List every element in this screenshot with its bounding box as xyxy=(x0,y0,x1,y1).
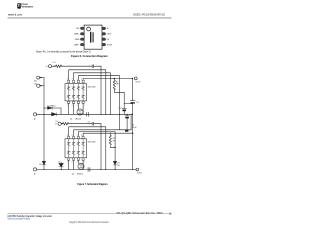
left pin labels xyxy=(74,28,80,46)
pin 1 indicator circle xyxy=(87,27,91,31)
capacitor plates in upper bus xyxy=(87,112,89,116)
diode D5 stub xyxy=(114,147,116,169)
svg-text:D2 1N914: D2 1N914 xyxy=(47,105,55,107)
svg-text:CAP−: CAP− xyxy=(74,43,80,46)
IC U2 top pin pads xyxy=(68,80,70,82)
svg-text:D3: D3 xyxy=(58,161,60,163)
svg-text:5: 5 xyxy=(169,212,171,216)
svg-text:2: 2 xyxy=(72,135,73,137)
wire: output line to VOUT xyxy=(83,79,132,81)
wire: lower nested bus 3 to resistor xyxy=(78,132,115,148)
svg-text:5: 5 xyxy=(77,79,78,81)
IC U3 body xyxy=(65,139,87,158)
svg-text:V+: V+ xyxy=(55,124,57,126)
diode D3 symbol xyxy=(59,163,64,166)
capacitor C2 stub xyxy=(123,104,125,115)
IC U2 body xyxy=(65,84,87,101)
svg-text:(6): (6) xyxy=(34,80,37,82)
wire: pin to transistor Q2 xyxy=(77,160,79,163)
svg-text:INSTRUMENTS: INSTRUMENTS xyxy=(22,6,33,8)
svg-text:4: 4 xyxy=(81,135,82,137)
capacitor C4 plates xyxy=(125,115,129,117)
wire: U3 pin bottoms to bus xyxy=(69,160,83,170)
pin numbers U2 bottom xyxy=(67,105,86,107)
terminal pair upper-left A xyxy=(37,76,40,79)
wire: terminal B to rail xyxy=(40,85,44,87)
pin 1 lead xyxy=(80,27,84,29)
transistor Q1 xyxy=(77,109,83,115)
terminal upper bus left xyxy=(33,113,36,116)
capacitor C4b dark plate at loop bottom xyxy=(125,130,128,132)
U2 internal column 3 xyxy=(77,84,80,101)
svg-text:+C2: +C2 xyxy=(118,108,121,110)
pin 6 lead xyxy=(102,38,106,41)
pin 5 lead xyxy=(102,43,106,46)
upper ground bus wire xyxy=(37,113,133,115)
wire: right drop to bus xyxy=(100,66,102,114)
fuse F2 xyxy=(61,123,68,125)
wire: terminal to fuse xyxy=(52,65,56,67)
U1 rotated part-number text xyxy=(90,32,91,43)
wire: left vertical rail xyxy=(43,78,45,170)
resistor R2 xyxy=(109,133,111,145)
terminal pair upper-left B xyxy=(37,84,40,87)
svg-text:5: 5 xyxy=(77,135,78,137)
terminal V+ (lower input) xyxy=(58,122,61,125)
terminal VOUT (upper right) xyxy=(134,77,137,80)
resistor R1 xyxy=(113,79,115,90)
wire: lower output line xyxy=(83,133,133,136)
terminal VOUT (lower right, on bus) xyxy=(136,168,139,171)
svg-text:SN-QS QML Schematic Rev No. 76: SN-QS QML Schematic Rev No. 7660 xyxy=(116,211,162,215)
svg-text:OSC: OSC xyxy=(107,34,112,36)
svg-text:4: 4 xyxy=(81,79,82,81)
TI logo wordmark: TEXAS / INSTRUMENTS xyxy=(22,3,33,8)
svg-text:2W: 2W xyxy=(116,84,119,86)
pin 2 lead xyxy=(80,33,84,35)
svg-text:2: 2 xyxy=(72,79,73,81)
svg-text:6: 6 xyxy=(72,162,73,164)
capacitor C3 plates in VOUT rail xyxy=(130,100,135,102)
wire: VOUT rail upper xyxy=(132,79,134,170)
svg-text:A−: A− xyxy=(34,172,36,175)
footer rule xyxy=(8,212,172,214)
U1 rotated date-code text xyxy=(93,32,94,42)
U2 internal column 4 xyxy=(82,84,85,101)
wire: horizontal link under R1 xyxy=(124,92,132,103)
svg-text:V+: V+ xyxy=(46,66,48,68)
capacitor C2 plates xyxy=(122,107,126,109)
U3 internal column 4 xyxy=(82,139,85,158)
svg-text:A−: A− xyxy=(34,117,36,120)
wire: nested bus 1 xyxy=(69,70,106,115)
IC U3 bottom pin pads xyxy=(68,158,70,160)
pin numbers U3 top xyxy=(67,135,82,137)
svg-text:LMC7660: LMC7660 xyxy=(88,86,96,88)
pin 8 lead xyxy=(102,27,106,30)
wire: right drop to lower bus xyxy=(100,124,102,170)
svg-text:GND: GND xyxy=(75,39,80,41)
svg-text:LMC7660: LMC7660 xyxy=(88,142,96,144)
terminal lower bus left xyxy=(33,168,36,171)
U3 internal column 2 xyxy=(72,139,75,158)
wire: cascade left vertical xyxy=(119,114,121,130)
svg-text:+: + xyxy=(89,64,90,66)
diode D1 in upper bus xyxy=(52,113,57,116)
svg-text:SNOSBZ3C –APRIL 2000–REVISED M: SNOSBZ3C –APRIL 2000–REVISED MARCH 2013 xyxy=(133,12,165,16)
wire: lower nested bus 2 xyxy=(74,130,132,137)
svg-text:Copyright © 2000–2013, Texas I: Copyright © 2000–2013, Texas Instruments… xyxy=(69,221,109,224)
wire: lower rail to right xyxy=(69,123,101,125)
svg-text:C3: C3 xyxy=(136,102,138,104)
svg-text:TEXAS: TEXAS xyxy=(22,3,29,6)
svg-text:Q1 1N4001: Q1 1N4001 xyxy=(70,118,81,120)
right pin labels xyxy=(107,28,114,46)
capacitor C4 stub xyxy=(126,114,128,130)
wire: pin to transistor Q1 xyxy=(77,103,79,109)
svg-text:3: 3 xyxy=(77,105,78,107)
svg-text:+C1: +C1 xyxy=(87,121,90,123)
diode D4 on left rail (dark) xyxy=(42,161,45,165)
schematic small labels xyxy=(34,62,143,175)
capacitor C1 plates (upper pump cap) xyxy=(92,65,93,68)
wire: V+ rail to right xyxy=(62,65,102,67)
pin 7 lead xyxy=(102,33,106,36)
wire: cascade right vertical xyxy=(130,114,132,130)
svg-text:D4: D4 xyxy=(39,164,41,166)
pin 3 lead xyxy=(80,38,84,40)
wire: lower nested bus 1 xyxy=(69,127,106,170)
wire: nested bus 3 to resistor xyxy=(78,76,119,115)
fuse F1 xyxy=(56,65,62,67)
pin numbers U3 bottom xyxy=(67,162,86,164)
svg-text:VOUT: VOUT xyxy=(107,44,114,46)
wire: terminal A to rail xyxy=(40,77,44,79)
svg-text:www.ti.com: www.ti.com xyxy=(8,13,23,17)
capacitor C1 plates (lower pump cap) xyxy=(92,122,93,125)
diode D2 branch wire xyxy=(44,108,61,114)
svg-text:C1+: C1+ xyxy=(55,121,58,123)
lower ground bus wire xyxy=(37,169,136,171)
IC U2 bottom pin pads xyxy=(68,101,70,103)
TI logo mark xyxy=(17,3,21,9)
wire: U2 pin bottoms to bus xyxy=(69,103,83,114)
U3 internal column 3 xyxy=(77,139,80,158)
svg-text:C1+: C1+ xyxy=(52,62,55,64)
pin numbers U2 top xyxy=(67,79,82,81)
svg-text:NC: NC xyxy=(76,28,80,30)
wire: nested bus 2 xyxy=(74,73,111,115)
wire: R2 bottom down xyxy=(110,146,115,147)
capacitor plates in lower bus xyxy=(88,168,90,172)
svg-text:CAP+: CAP+ xyxy=(74,33,80,36)
diode D2 symbol xyxy=(48,107,53,110)
IC U3 top pin pads xyxy=(68,136,70,138)
svg-text:Q2 1N4001: Q2 1N4001 xyxy=(72,174,83,176)
header rule xyxy=(8,17,172,20)
svg-text:Figure 7. Schematic Diagram: Figure 7. Schematic Diagram xyxy=(77,182,107,186)
U3 internal column 1 xyxy=(67,139,70,158)
junction dots xyxy=(40,66,133,170)
diode D5 symbol (dark) xyxy=(113,161,116,165)
pin 4 lead xyxy=(80,43,84,45)
wire: R1 bottom down xyxy=(114,90,124,93)
svg-text:Submit Documentation Feedback: Submit Documentation Feedback xyxy=(8,218,31,221)
terminal V+ (upper input) xyxy=(49,65,52,68)
svg-text:Figure 6. Connection Diagram: Figure 6. Connection Diagram xyxy=(71,54,108,58)
IC package U1 body (8-pin PDIP, top view) xyxy=(84,25,102,49)
svg-text:6: 6 xyxy=(72,105,73,107)
svg-text:3: 3 xyxy=(77,162,78,164)
svg-text:2W: 2W xyxy=(113,140,116,142)
U2 internal column 1 xyxy=(67,84,70,101)
diode D3 branch xyxy=(60,163,62,170)
U2 internal column 2 xyxy=(72,84,75,101)
svg-text:Notes: Pin 1 is internally con: Notes: Pin 1 is internally connected to … xyxy=(36,49,91,53)
transistor Q2 xyxy=(78,163,84,169)
svg-text:(3): (3) xyxy=(34,84,37,86)
